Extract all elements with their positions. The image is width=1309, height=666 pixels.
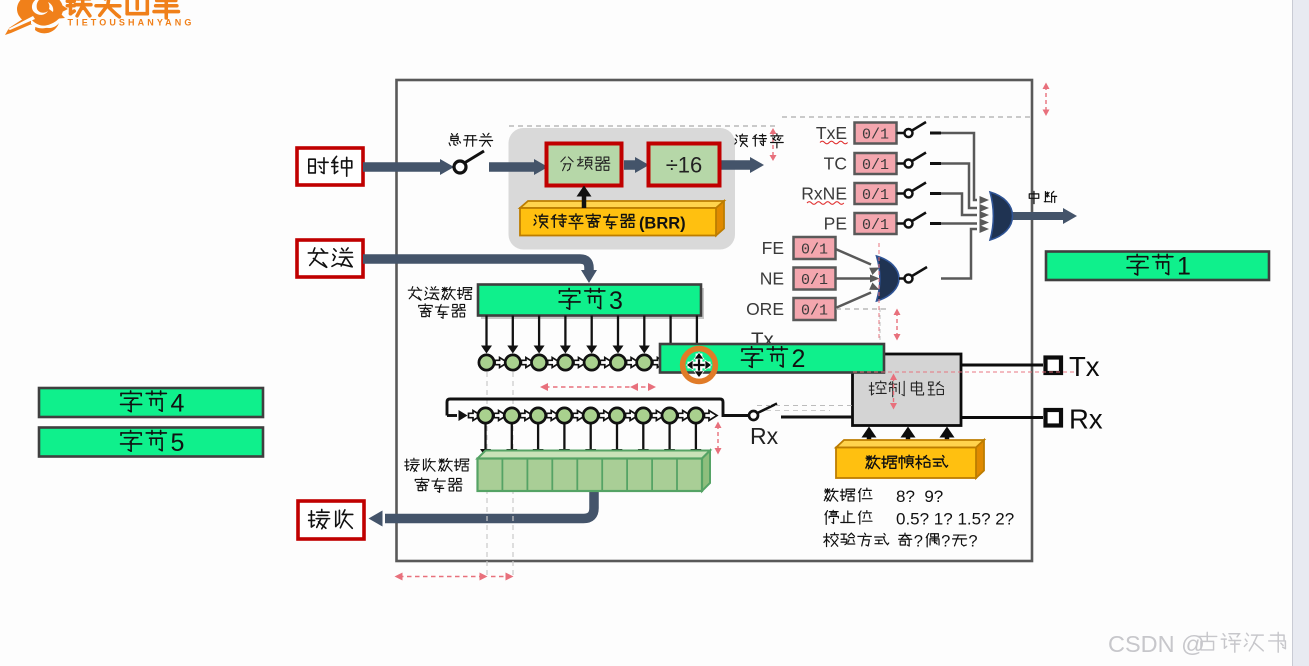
svg-text:RxNE: RxNE xyxy=(801,184,847,204)
svg-text:0/1: 0/1 xyxy=(862,126,889,143)
svg-text:3: 3 xyxy=(609,287,623,315)
svg-text:0/1: 0/1 xyxy=(801,272,828,289)
svg-text:?: ? xyxy=(968,533,977,551)
svg-text:TC: TC xyxy=(824,154,847,174)
svg-text:0/1: 0/1 xyxy=(862,187,889,204)
svg-text:Rx: Rx xyxy=(1069,404,1103,435)
svg-text:5: 5 xyxy=(170,429,184,457)
svg-text:÷16: ÷16 xyxy=(666,153,703,178)
svg-text:Rx: Rx xyxy=(750,423,779,449)
svg-text:1: 1 xyxy=(1177,253,1191,281)
svg-text:0/1: 0/1 xyxy=(801,302,828,319)
svg-text:CSDN @: CSDN @ xyxy=(1108,631,1205,657)
svg-text:0.5? 1? 1.5? 2?: 0.5? 1? 1.5? 2? xyxy=(896,510,1014,529)
svg-text:TxE: TxE xyxy=(816,123,847,143)
svg-text:0/1: 0/1 xyxy=(801,241,828,258)
svg-text:?: ? xyxy=(914,533,923,551)
svg-text:(BRR): (BRR) xyxy=(639,215,686,233)
svg-text:ORE: ORE xyxy=(746,299,784,319)
svg-text:NE: NE xyxy=(760,269,784,289)
svg-text:TIETOUSHANYANG: TIETOUSHANYANG xyxy=(68,18,195,28)
svg-text:2: 2 xyxy=(791,345,805,373)
svg-text:0/1: 0/1 xyxy=(862,157,889,174)
svg-text:FE: FE xyxy=(762,238,784,258)
svg-text:Tx: Tx xyxy=(1069,351,1100,382)
svg-text:0/1: 0/1 xyxy=(862,217,889,234)
svg-text:?: ? xyxy=(941,533,950,551)
svg-text:PE: PE xyxy=(824,214,847,234)
svg-text:8? 9?: 8? 9? xyxy=(896,487,943,506)
svg-text:4: 4 xyxy=(170,389,184,417)
